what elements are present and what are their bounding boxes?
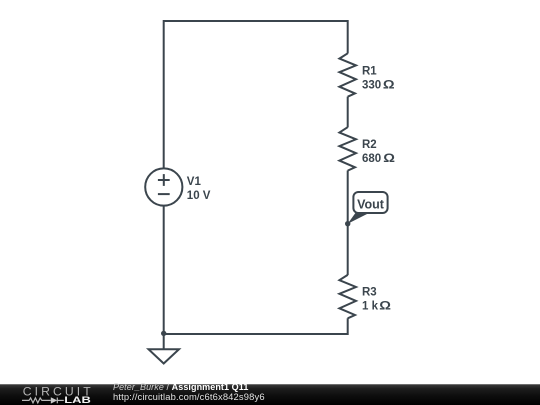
- svg-text:R3: R3: [362, 287, 377, 299]
- svg-text:1 k: 1 k: [362, 301, 379, 313]
- wire V1 - terminal down to bottom junction: [163, 206, 165, 335]
- net label Vout bubble: [348, 192, 388, 224]
- label V1 value 10 V: [187, 176, 211, 202]
- svg-text:Ω: Ω: [383, 78, 395, 91]
- wire R1 bottom to R2 top: [347, 97, 349, 128]
- svg-text:R1: R1: [362, 65, 377, 77]
- svg-text:Ω: Ω: [383, 152, 395, 165]
- svg-text:Ω: Ω: [379, 299, 391, 312]
- ground: [149, 334, 180, 364]
- node Vout junction dot: [345, 221, 350, 226]
- svg-text:10 V: 10 V: [187, 190, 211, 202]
- resistor R2: [339, 127, 356, 170]
- junction dot at V1/ground/bottom wire: [161, 331, 166, 336]
- label R3 value 1 kOhm: [362, 287, 391, 313]
- svg-text:Vout: Vout: [357, 197, 385, 211]
- svg-text:LAB: LAB: [64, 395, 91, 405]
- resistor R3: [339, 275, 356, 318]
- voltage source V1: [145, 168, 182, 205]
- svg-text:680: 680: [362, 153, 381, 165]
- svg-text:http://circuitlab.com/c6t6x842: http://circuitlab.com/c6t6x842s98y6: [113, 391, 265, 402]
- resistor R1: [339, 53, 356, 96]
- label Vout text: [357, 197, 385, 211]
- wire R2 bottom to node Vout: [347, 171, 349, 224]
- wire from V1 + terminal up, across top, down to R1 top: [164, 21, 348, 169]
- footer bar: [0, 384, 540, 405]
- footer caption text: [113, 382, 265, 402]
- label R2 value 680 Ohm: [362, 139, 395, 165]
- svg-text:R2: R2: [362, 139, 377, 151]
- label R1 value 330 Ohm: [362, 65, 395, 91]
- svg-text:V1: V1: [187, 176, 202, 188]
- wire node Vout to R3 top: [347, 224, 349, 275]
- footer logo CIRCUIT LAB: [22, 384, 91, 405]
- svg-text:330: 330: [362, 79, 381, 91]
- wire R3 bottom, across bottom, to junction at ground: [164, 318, 348, 334]
